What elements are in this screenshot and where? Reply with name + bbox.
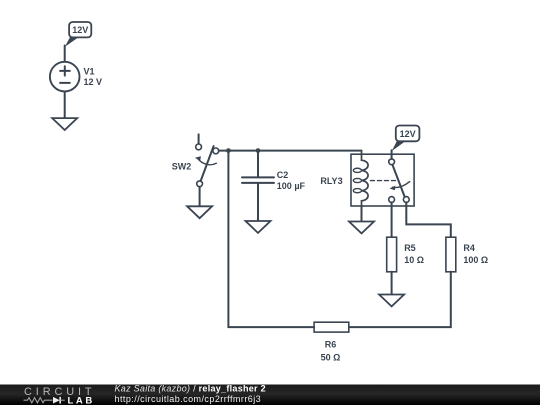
svg-text:10 Ω: 10 Ω	[404, 255, 424, 265]
voltage source V1	[50, 62, 102, 92]
svg-text:V1: V1	[84, 66, 95, 76]
svg-text:12V: 12V	[400, 129, 416, 139]
ground (RLY3 coil)	[349, 222, 374, 234]
relay RLY3 coil	[320, 151, 368, 222]
ground (V1)	[52, 118, 77, 130]
wire (top rail)	[219, 150, 362, 152]
svg-text:R6: R6	[325, 340, 337, 350]
wire (coil to ground)	[361, 206, 363, 222]
node 12V flag (V1)	[65, 22, 91, 47]
node 12V flag (relay)	[392, 126, 420, 152]
svg-text:100 µF: 100 µF	[277, 181, 306, 191]
node junction A	[226, 148, 231, 153]
wire	[199, 187, 201, 207]
svg-text:Kaz Saita (kazbo) / relay_flas: Kaz Saita (kazbo) / relay_flasher 2	[115, 384, 266, 394]
relay RLY3 box	[351, 154, 414, 206]
svg-text:LAB: LAB	[68, 395, 95, 405]
svg-text:R4: R4	[463, 243, 475, 253]
svg-text:SW2: SW2	[172, 162, 192, 172]
ground (SW2)	[187, 206, 212, 218]
wire (R4 to bottom rail)	[349, 272, 451, 327]
footer bar	[0, 385, 540, 405]
capacitor C2	[242, 151, 306, 221]
CircuitLab logo	[24, 386, 96, 405]
wire	[64, 46, 66, 63]
svg-text:C2: C2	[277, 170, 289, 180]
resistor R6	[314, 322, 349, 363]
wire (relay throw to R4)	[406, 202, 451, 237]
wire (left drop to bottom)	[227, 151, 229, 328]
wire (relay pole to R5)	[391, 202, 393, 237]
switch SW2	[172, 134, 219, 186]
svg-text:http://circuitlab.com/cp2rrffm: http://circuitlab.com/cp2rrffmrr6j3	[115, 394, 262, 404]
relay RLY3 switch	[389, 159, 410, 203]
svg-text:12 V: 12 V	[84, 77, 103, 87]
svg-text:RLY3: RLY3	[320, 176, 342, 186]
node junction B	[256, 148, 261, 153]
relay RLY3 dashed link	[371, 180, 396, 182]
svg-text:12V: 12V	[72, 25, 88, 35]
ground (R5)	[379, 295, 404, 307]
footer text	[115, 384, 266, 404]
svg-text:50 Ω: 50 Ω	[321, 353, 341, 363]
resistor R5	[387, 237, 424, 272]
wire	[391, 150, 393, 159]
svg-text:R5: R5	[404, 243, 416, 253]
wire	[391, 272, 393, 295]
wire	[64, 91, 66, 118]
resistor R4	[446, 237, 488, 272]
svg-text:100 Ω: 100 Ω	[463, 255, 488, 265]
wire (bottom rail left)	[228, 326, 314, 328]
ground (C2)	[246, 221, 271, 233]
